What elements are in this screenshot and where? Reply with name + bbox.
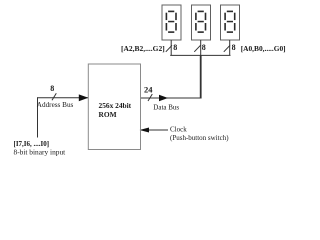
svg-text:8: 8 (232, 43, 236, 52)
svg-text:24: 24 (144, 84, 153, 94)
svg-text:Data Bus: Data Bus (153, 103, 179, 111)
svg-text:8-bit binary input: 8-bit binary input (14, 147, 67, 156)
svg-text:ROM: ROM (99, 110, 117, 119)
svg-text:8: 8 (50, 84, 54, 93)
svg-text:Clock: Clock (170, 125, 187, 133)
svg-text:8: 8 (173, 43, 177, 52)
svg-text:[A0,B0,.....G0]: [A0,B0,.....G0] (241, 44, 286, 53)
svg-text:256x 24bit: 256x 24bit (99, 101, 132, 110)
svg-text:8: 8 (202, 43, 206, 52)
svg-text:Address Bus: Address Bus (37, 101, 74, 109)
svg-text:[A2,B2,....G2]: [A2,B2,....G2] (121, 44, 165, 53)
svg-text:(Push-button switch): (Push-button switch) (170, 134, 229, 142)
